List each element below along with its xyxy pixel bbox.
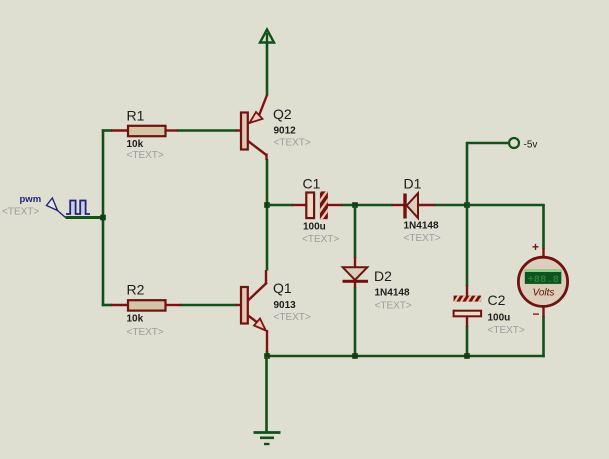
- wire: R1 right green to Q2 base: [177, 129, 237, 132]
- wire: D1 right pin to right node: [435, 204, 468, 207]
- junction: D2 bottom node: [352, 353, 358, 359]
- svg-text:1N4148: 1N4148: [375, 288, 410, 299]
- wire: D2 column upper green: [354, 205, 357, 258]
- power arrow: [260, 30, 274, 44]
- svg-text:+88.8: +88.8: [527, 274, 559, 286]
- svg-text:<TEXT>: <TEXT>: [302, 234, 339, 245]
- svg-text:<TEXT>: <TEXT>: [375, 301, 412, 312]
- svg-text:Q1: Q1: [273, 280, 292, 296]
- voltmeter: [518, 240, 567, 321]
- wire: Q1 emitter to bottom rail: [266, 351, 269, 357]
- svg-text:<TEXT>: <TEXT>: [127, 327, 164, 338]
- wire: bottom rail: [267, 355, 545, 358]
- resistor R1: [111, 108, 178, 162]
- wire: right node down to C2 top pin: [466, 205, 469, 286]
- svg-text:9012: 9012: [274, 126, 297, 137]
- svg-text:D2: D2: [374, 268, 392, 284]
- wire: -5v horizontal: [467, 142, 509, 145]
- transistor Q1: [236, 270, 311, 352]
- junction: C2 bottom node: [464, 353, 470, 359]
- wire: R2 row left green: [102, 304, 112, 307]
- svg-text:Q2: Q2: [273, 106, 292, 122]
- svg-text:−: −: [532, 307, 539, 321]
- wire: node to C1 left pin: [267, 204, 293, 207]
- wire: right node to voltmeter corner: [467, 204, 545, 207]
- resistor R2: [111, 282, 181, 339]
- svg-text:<TEXT>: <TEXT>: [488, 325, 525, 336]
- diode D1: [392, 176, 441, 245]
- svg-text:10k: 10k: [127, 314, 144, 325]
- diode D2: [343, 257, 412, 312]
- junction: node at Q2/Q1/C1: [264, 202, 270, 208]
- svg-text:<TEXT>: <TEXT>: [274, 312, 311, 323]
- pwm input generator: [2, 194, 90, 218]
- wire: pwm baseline to left rail: [66, 216, 104, 219]
- power terminal -5v: [509, 138, 537, 151]
- ground: [254, 433, 281, 445]
- wire: left rail vertical: [102, 129, 105, 306]
- svg-text:10k: 10k: [127, 139, 144, 150]
- wire: center node down to Q1 collector: [266, 205, 269, 271]
- capacitor C2: [453, 285, 525, 336]
- wire: voltmeter column upper green: [542, 205, 545, 249]
- svg-text:<TEXT>: <TEXT>: [127, 150, 164, 161]
- junction: pwm to rail: [100, 215, 106, 221]
- wire: -5v rail down to right node: [466, 142, 469, 205]
- junction: D2 top node: [352, 202, 358, 208]
- wire: voltmeter bottom green: [542, 316, 545, 357]
- wire: D2 column lower green: [354, 287, 357, 356]
- svg-text:1N4148: 1N4148: [404, 221, 439, 232]
- svg-text:<TEXT>: <TEXT>: [274, 138, 311, 149]
- wire: R1 row left green: [102, 129, 112, 132]
- svg-text:Volts: Volts: [533, 288, 555, 299]
- wire: Q2 collector to center node: [266, 159, 269, 205]
- svg-text:R2: R2: [127, 282, 145, 298]
- wire: C2 bottom pin to bottom rail: [466, 326, 469, 356]
- wire: ground stem: [265, 356, 268, 432]
- transistor Q2: [236, 95, 311, 160]
- svg-text:<TEXT>: <TEXT>: [2, 207, 39, 218]
- svg-text:D1: D1: [404, 176, 422, 192]
- wire: power stem to Q2 emitter: [266, 43, 269, 96]
- svg-text:R1: R1: [127, 108, 145, 124]
- svg-text:100u: 100u: [488, 313, 511, 324]
- svg-text:9013: 9013: [274, 300, 297, 311]
- svg-text:C1: C1: [303, 176, 321, 192]
- svg-text:100u: 100u: [303, 222, 326, 233]
- junction: ground node: [264, 353, 270, 359]
- svg-text:C2: C2: [488, 292, 506, 308]
- svg-text:+: +: [532, 240, 539, 254]
- capacitor C1: [292, 170, 342, 245]
- svg-text:<TEXT>: <TEXT>: [404, 233, 441, 244]
- wire: C1 right pin to D1 left pin: [341, 204, 393, 207]
- junction: right node (D1 / -5v rail / C2): [464, 202, 470, 208]
- svg-text:-5v: -5v: [524, 140, 538, 151]
- svg-text:pwm: pwm: [20, 194, 42, 205]
- wire: R2 right green to Q1 base: [180, 304, 237, 307]
